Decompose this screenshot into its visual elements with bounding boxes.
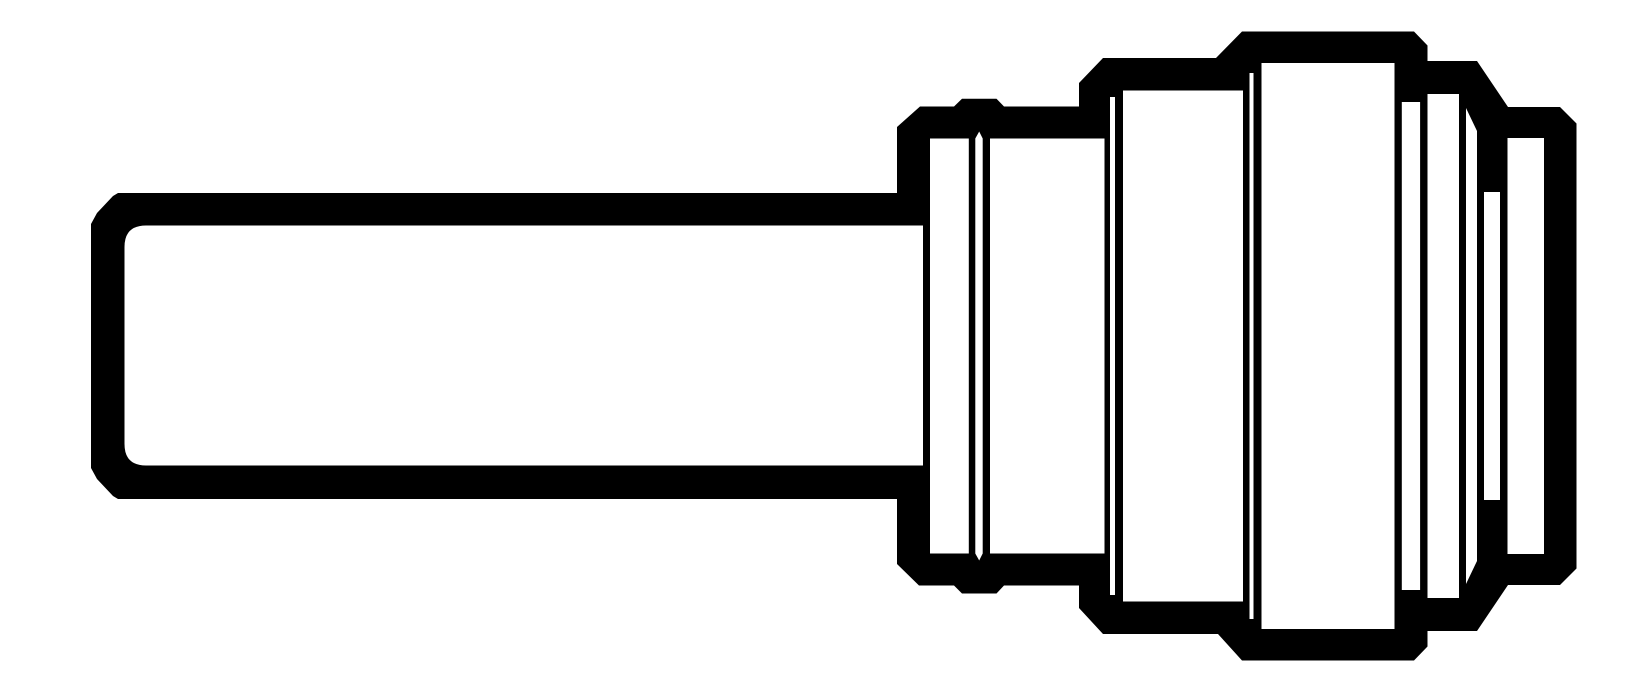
collet face right	[990, 139, 1105, 554]
body ring face	[1123, 91, 1243, 602]
slit between collet and body	[1110, 97, 1115, 595]
main body face	[1262, 63, 1395, 629]
rear groove slot	[1466, 108, 1477, 584]
end cap face	[1508, 138, 1545, 554]
stem bore face	[125, 226, 924, 466]
collet face left	[930, 139, 969, 554]
rear narrow slot	[1484, 192, 1500, 500]
collet groove slit	[975, 132, 982, 561]
narrow body face	[1402, 102, 1420, 590]
rear ring face	[1428, 94, 1460, 598]
slit at body step	[1250, 73, 1254, 619]
